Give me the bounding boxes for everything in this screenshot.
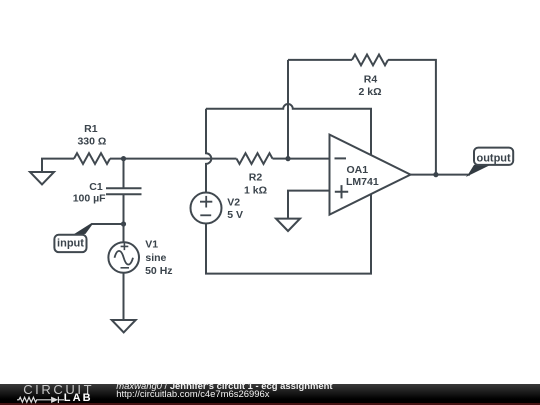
footer text [116,382,332,391]
voltage source V1 (sine) [108,242,139,273]
svg-text:V1: V1 [145,239,158,251]
footer bar [0,384,540,403]
svg-text:5 V: 5 V [227,209,243,221]
ground (op-amp non-inverting) [276,219,300,231]
svg-text:50 Hz: 50 Hz [145,265,172,277]
wire: V+ rail with hop over feedback wire, down to op-amp V+ pin [206,104,371,155]
ground (left of R1) [30,172,54,184]
input flag tail [73,223,92,235]
wire: left ground to R1 [42,159,74,172]
CircuitLab logo [23,383,94,396]
input flag box [54,235,86,252]
node junction: C1/V1/input [121,221,126,226]
output flag tail [466,165,491,177]
resistor R4 [352,55,388,66]
wire: top rail right segment down to output node [388,60,436,175]
wire: R1 to R2 (main node) [110,158,237,160]
wire: top rail left segment [288,59,352,61]
voltage source V2 [191,193,222,224]
svg-text:output: output [476,152,511,164]
node junction: R2/feedback/op-amp minus [285,156,290,161]
wire: op-amp non-inverting input to ground [288,191,330,219]
wire: V2 top vertical with hop over main wire [206,109,211,193]
resistor R1 [74,153,110,164]
wire: op-amp output [411,174,471,176]
wire: V1 to ground [123,273,125,320]
wire: V2 bottom to op-amp V- pin [206,194,371,273]
svg-text:R4: R4 [364,74,378,86]
capacitor C1 [106,159,142,224]
ground (below V1) [112,320,136,332]
resistor R2 [237,153,273,164]
wire: junction to input flag [92,223,124,225]
svg-text:R2: R2 [249,172,263,184]
node junction: output [433,172,438,177]
svg-text:LM741: LM741 [346,176,379,188]
wire: node to op-amp inverting input [288,158,330,160]
wire: feedback vertical [287,60,289,159]
svg-text:2 kΩ: 2 kΩ [358,86,381,98]
wire: R2 to inverting node [273,158,289,160]
svg-text:input: input [57,237,84,249]
svg-text:OA1: OA1 [347,164,369,176]
svg-text:100 µF: 100 µF [73,193,106,205]
output flag box [474,148,513,165]
op-amp OA1 [330,135,411,215]
wire: junction to V1 [123,224,125,242]
node junction: R1/C1 [121,156,126,161]
svg-text:C1: C1 [89,181,103,193]
svg-text:V2: V2 [227,197,240,209]
svg-text:1 kΩ: 1 kΩ [244,185,267,197]
svg-text:330 Ω: 330 Ω [77,136,106,148]
svg-text:R1: R1 [84,123,98,135]
svg-text:sine: sine [145,252,166,264]
